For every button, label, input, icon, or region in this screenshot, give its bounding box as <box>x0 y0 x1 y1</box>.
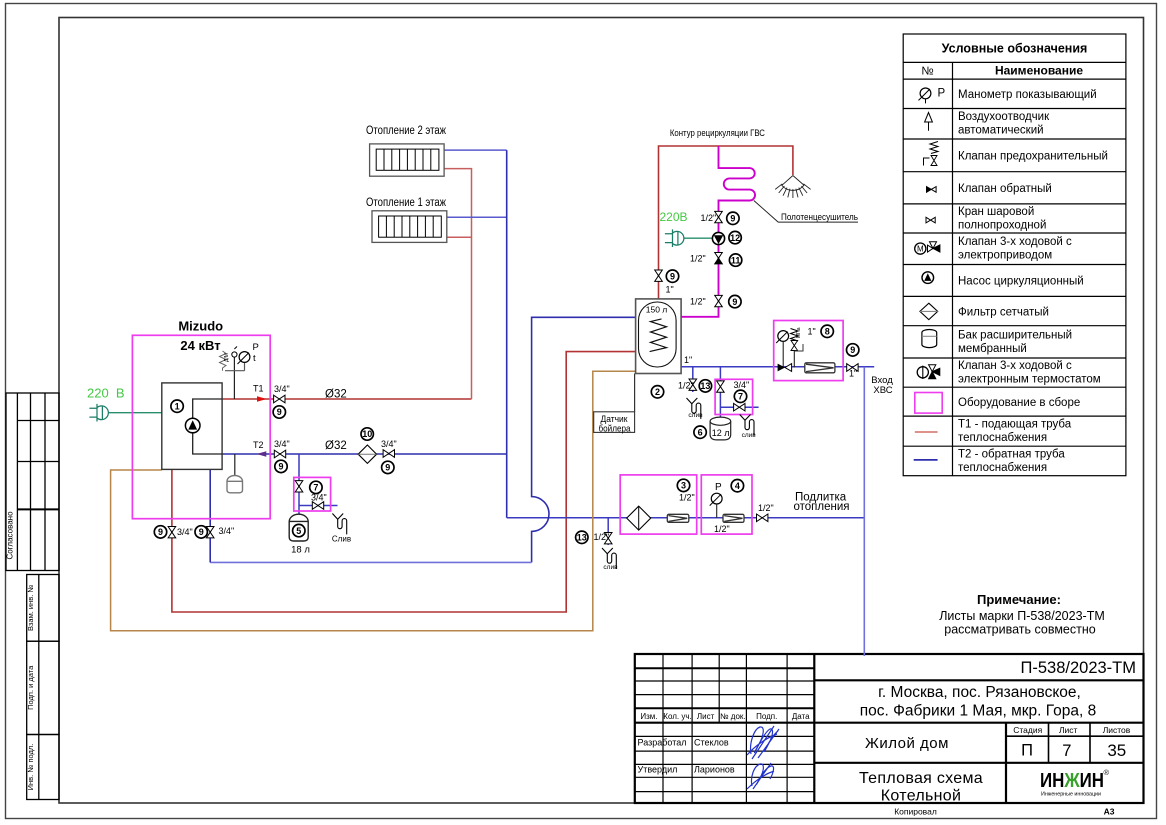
svg-text:Подп. и дата: Подп. и дата <box>26 665 35 710</box>
svg-text:9: 9 <box>158 527 163 537</box>
svg-text:Лист: Лист <box>1059 725 1078 735</box>
svg-text:П: П <box>1021 741 1033 759</box>
svg-text:П-538/2023-ТМ: П-538/2023-ТМ <box>1021 659 1137 677</box>
svg-text:9: 9 <box>730 214 735 224</box>
svg-text:1": 1" <box>808 327 816 337</box>
svg-text:Стеклов: Стеклов <box>694 738 729 748</box>
svg-text:Бак расширительный: Бак расширительный <box>958 329 1072 341</box>
svg-text:12 л: 12 л <box>712 428 730 438</box>
svg-text:Фильтр сетчатый: Фильтр сетчатый <box>958 306 1049 318</box>
svg-text:1/2": 1/2" <box>701 213 717 223</box>
svg-text:Утвердил: Утвердил <box>638 764 678 774</box>
svg-text:г. Москва, пос. Рязановское,: г. Москва, пос. Рязановское, <box>878 684 1081 701</box>
svg-text:35: 35 <box>1107 741 1126 760</box>
svg-text:5: 5 <box>296 526 301 536</box>
svg-text:12: 12 <box>730 233 740 243</box>
svg-text:9: 9 <box>732 297 737 307</box>
svg-text:Клапан обратный: Клапан обратный <box>958 183 1052 195</box>
svg-text:Тепловая схема: Тепловая схема <box>859 770 983 787</box>
svg-text:Инв. № подл.: Инв. № подл. <box>26 744 35 791</box>
svg-text:7: 7 <box>738 392 743 402</box>
svg-text:Жилой дом: Жилой дом <box>865 735 949 752</box>
svg-text:T1: T1 <box>253 384 264 394</box>
svg-text:Т1 - подающая труба: Т1 - подающая труба <box>958 419 1072 431</box>
svg-text:1/2": 1/2" <box>690 297 706 307</box>
svg-text:Кран шаровой: Кран шаровой <box>958 206 1034 218</box>
svg-text:ИНЖИН: ИНЖИН <box>1040 769 1104 792</box>
svg-text:Копировал: Копировал <box>894 807 937 817</box>
svg-text:Ø32: Ø32 <box>325 389 347 401</box>
svg-text:Mizudo: Mizudo <box>178 319 223 334</box>
svg-text:отопления: отопления <box>794 501 850 513</box>
svg-text:Клапан предохранительный: Клапан предохранительный <box>958 151 1108 163</box>
svg-text:T2: T2 <box>253 440 264 450</box>
svg-text:1": 1" <box>849 369 857 379</box>
svg-text:теплоснабжения: теплоснабжения <box>958 432 1047 444</box>
svg-text:Отопление 1 этаж: Отопление 1 этаж <box>366 197 446 209</box>
svg-text:13: 13 <box>700 381 710 391</box>
svg-text:3/4": 3/4" <box>219 526 235 536</box>
svg-text:1/2": 1/2" <box>678 381 694 391</box>
svg-text:Р: Р <box>938 87 946 99</box>
svg-text:Ø32: Ø32 <box>325 440 347 452</box>
svg-text:электронным термостатом: электронным термостатом <box>958 374 1101 386</box>
svg-text:®: ® <box>1104 768 1110 777</box>
svg-text:1/2": 1/2" <box>758 503 774 513</box>
svg-text:1/2": 1/2" <box>679 493 695 503</box>
svg-text:Лист: Лист <box>697 712 715 721</box>
svg-text:ХВС: ХВС <box>873 385 892 396</box>
svg-text:слив: слив <box>688 412 703 419</box>
svg-text:электроприводом: электроприводом <box>958 250 1052 262</box>
svg-text:1": 1" <box>666 284 674 294</box>
svg-text:1: 1 <box>175 401 180 411</box>
svg-text:рассматривать совместно: рассматривать совместно <box>944 623 1095 637</box>
svg-text:Ларионов: Ларионов <box>694 764 735 774</box>
svg-text:9: 9 <box>670 271 675 281</box>
svg-text:150 л: 150 л <box>646 305 668 315</box>
svg-text:Клапан 3-х ходовой с: Клапан 3-х ходовой с <box>958 360 1072 372</box>
svg-text:13: 13 <box>577 533 587 543</box>
svg-text:18 л: 18 л <box>291 545 310 556</box>
svg-text:Котельной: Котельной <box>881 788 961 805</box>
svg-text:Согласовано: Согласовано <box>5 511 14 560</box>
svg-text:8: 8 <box>825 327 830 337</box>
svg-text:3/4": 3/4" <box>274 439 290 449</box>
svg-text:Контур рециркуляции ГВС: Контур рециркуляции ГВС <box>670 128 765 138</box>
svg-text:автоматический: автоматический <box>958 125 1044 137</box>
svg-text:1/2": 1/2" <box>594 532 610 542</box>
svg-text:1/2": 1/2" <box>714 524 730 534</box>
svg-text:слив: слив <box>742 432 757 439</box>
svg-text:М: М <box>917 245 924 254</box>
svg-text:Изм.: Изм. <box>640 712 657 721</box>
svg-text:Подп.: Подп. <box>756 712 777 721</box>
svg-text:9: 9 <box>277 407 282 417</box>
svg-text:Манометр показывающий: Манометр показывающий <box>958 89 1097 101</box>
svg-text:9: 9 <box>278 462 283 472</box>
svg-text:полнопроходной: полнопроходной <box>958 219 1046 231</box>
svg-text:3/4": 3/4" <box>177 527 193 537</box>
svg-text:Д/М: Д/М <box>224 353 230 362</box>
svg-text:Дата: Дата <box>792 712 810 721</box>
svg-text:9: 9 <box>199 527 204 537</box>
svg-text:Р: Р <box>715 482 722 493</box>
svg-text:Полотенцесушитель: Полотенцесушитель <box>781 212 858 223</box>
svg-text:11: 11 <box>731 255 741 265</box>
svg-text:Стадия: Стадия <box>1013 725 1042 735</box>
svg-text:3/4": 3/4" <box>274 384 290 394</box>
svg-text:Наименование: Наименование <box>995 64 1083 78</box>
svg-text:Кол. уч.: Кол. уч. <box>663 712 691 721</box>
svg-text:P: P <box>253 342 259 353</box>
svg-text:3/4": 3/4" <box>381 439 397 449</box>
svg-text:24 кВт: 24 кВт <box>180 338 220 353</box>
svg-text:10: 10 <box>362 429 372 439</box>
svg-text:Слив: Слив <box>332 534 351 543</box>
svg-text:Примечание:: Примечание: <box>977 592 1061 607</box>
svg-text:А3: А3 <box>1104 807 1115 817</box>
svg-text:Воздухоотводчик: Воздухоотводчик <box>958 111 1050 123</box>
svg-text:t: t <box>253 353 256 364</box>
svg-text:Разработал: Разработал <box>638 738 687 748</box>
svg-text:Отопление 2 этаж: Отопление 2 этаж <box>366 125 446 137</box>
svg-text:4: 4 <box>735 481 740 491</box>
svg-text:6: 6 <box>698 427 703 437</box>
svg-text:1/2": 1/2" <box>690 254 706 264</box>
svg-text:Листы марки П-538/2023-ТМ: Листы марки П-538/2023-ТМ <box>939 609 1105 623</box>
svg-text:3/4": 3/4" <box>734 380 750 390</box>
svg-text:Клапан 3-х ходовой с: Клапан 3-х ходовой с <box>958 236 1072 248</box>
svg-text:мембранный: мембранный <box>958 343 1027 355</box>
svg-text:теплоснабжения: теплоснабжения <box>958 462 1047 474</box>
svg-text:№: № <box>921 66 933 78</box>
svg-text:220В: 220В <box>660 210 688 224</box>
svg-text:220 В: 220 В <box>87 386 125 401</box>
svg-text:слив: слив <box>603 564 618 571</box>
svg-text:пос. Фабрики 1 Мая, мкр. Гора,: пос. Фабрики 1 Мая, мкр. Гора, 8 <box>860 702 1096 719</box>
svg-text:9: 9 <box>850 345 855 355</box>
svg-text:№ док.: № док. <box>720 712 746 721</box>
svg-text:7: 7 <box>313 483 318 493</box>
svg-text:бойлера: бойлера <box>599 423 632 434</box>
svg-text:Оборудование в сборе: Оборудование в сборе <box>958 397 1080 409</box>
svg-text:Т2 - обратная труба: Т2 - обратная труба <box>958 448 1065 460</box>
svg-text:МПа: МПа <box>796 327 802 338</box>
svg-text:Условные обозначения: Условные обозначения <box>942 41 1088 55</box>
svg-text:1": 1" <box>684 355 692 365</box>
svg-text:3: 3 <box>681 481 686 491</box>
svg-text:3/4": 3/4" <box>311 493 327 503</box>
svg-text:Насос циркуляционный: Насос циркуляционный <box>958 276 1084 288</box>
svg-text:Взам. инв. №: Взам. инв. № <box>26 585 35 631</box>
svg-text:7: 7 <box>1062 742 1071 760</box>
svg-text:2: 2 <box>655 387 660 397</box>
svg-text:9: 9 <box>385 463 390 473</box>
svg-text:Листов: Листов <box>1103 725 1131 735</box>
svg-text:Инженерные инновации: Инженерные инновации <box>1041 791 1101 797</box>
